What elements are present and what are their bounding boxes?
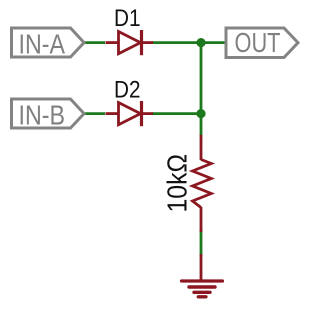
wire: resistor R1 to ground <box>200 230 203 256</box>
diode D2 <box>106 101 154 126</box>
diode D1 <box>106 30 154 55</box>
wire: node A down to node B <box>200 43 203 114</box>
wire: IN-A tag to diode D1 anode <box>83 41 105 44</box>
resistor R1 <box>193 135 212 232</box>
wire: node B down to resistor R1 <box>200 114 203 137</box>
node B junction <box>196 109 205 118</box>
node A junction <box>196 38 205 47</box>
wire: IN-B tag to diode D2 anode <box>83 112 105 115</box>
svg-text:D1: D1 <box>114 5 141 32</box>
pin tag IN-A <box>12 28 85 59</box>
svg-text:IN-A: IN-A <box>19 28 66 59</box>
label 10kΩ (value of R1) <box>162 154 193 213</box>
pin tag IN-B <box>12 99 85 130</box>
svg-text:OUT: OUT <box>235 27 281 58</box>
label D2 <box>114 77 141 104</box>
svg-text:IN-B: IN-B <box>19 99 66 130</box>
svg-text:10kΩ: 10kΩ <box>162 154 193 213</box>
ground <box>182 254 223 297</box>
wire: diode D1 cathode to OUT tag (through node A) <box>152 41 226 44</box>
svg-text:D2: D2 <box>114 77 141 104</box>
label D1 <box>114 5 141 32</box>
pin tag OUT <box>226 27 298 58</box>
wire: diode D2 cathode to node B <box>152 112 201 115</box>
